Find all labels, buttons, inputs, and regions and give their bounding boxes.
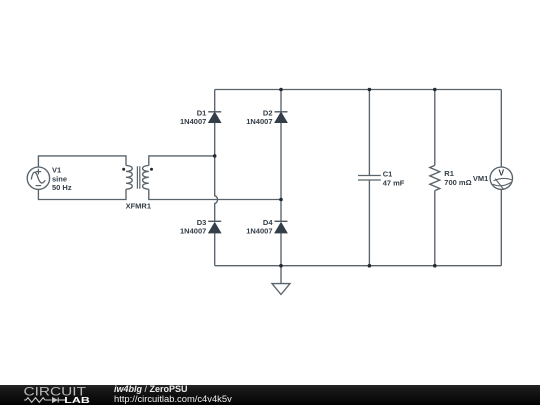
svg-text:47 mF: 47 mF	[383, 178, 405, 187]
svg-text:1N4007: 1N4007	[180, 227, 206, 236]
wire D3 bottom	[214, 233, 216, 266]
svg-text:700 mΩ: 700 mΩ	[444, 178, 471, 187]
wire secondary top	[149, 156, 215, 166]
CircuitLab logo	[0, 385, 110, 405]
svg-text:D2: D2	[263, 108, 273, 117]
wire R1 branch	[434, 90, 436, 266]
wire D4 bottom	[280, 233, 282, 266]
svg-text:1N4007: 1N4007	[246, 117, 272, 126]
diode D2	[275, 112, 288, 123]
svg-text:1N4007: 1N4007	[180, 117, 206, 126]
wire secondary bottom to D2/D4 node	[149, 189, 281, 199]
diode D4	[275, 221, 288, 233]
wire V1 bottom	[38, 189, 126, 199]
svg-text:V: V	[498, 168, 504, 178]
svg-text:1N4007: 1N4007	[246, 227, 272, 236]
wire D1 branch upper	[214, 90, 216, 112]
voltage source V1	[27, 167, 49, 189]
svg-text:C1: C1	[383, 170, 393, 179]
svg-text:R1: R1	[444, 169, 454, 178]
diode D1	[208, 112, 221, 123]
footer bar	[0, 385, 540, 405]
svg-text:XFMR1: XFMR1	[126, 202, 151, 211]
diode D3	[208, 221, 221, 233]
wire D2-D4 middle	[280, 123, 282, 222]
svg-text:LAB: LAB	[64, 396, 90, 405]
svg-text:VM1: VM1	[473, 174, 488, 183]
resistor R1	[430, 165, 440, 190]
svg-text:V1: V1	[52, 166, 61, 175]
transformer phase dots	[122, 168, 125, 171]
voltmeter VM1	[490, 167, 512, 190]
wire bottom rail	[215, 265, 502, 267]
wire V1 top	[38, 156, 126, 167]
wire C1 branch	[368, 90, 370, 266]
svg-text:D1: D1	[197, 108, 207, 117]
capacitor C1	[358, 176, 381, 181]
svg-text:sine: sine	[52, 174, 67, 183]
svg-text:D3: D3	[197, 218, 207, 227]
transformer core	[137, 166, 139, 189]
transformer XFMR1 secondary coil	[143, 166, 149, 190]
wire D1-D3 middle with hop	[215, 123, 218, 222]
wire ground stem	[280, 266, 282, 284]
svg-text:50 Hz: 50 Hz	[52, 183, 72, 192]
transformer XFMR1 primary coil	[126, 166, 132, 190]
svg-text:D4: D4	[263, 218, 273, 227]
wire D2 branch upper	[280, 90, 282, 112]
wire VM1 branch	[500, 90, 502, 266]
ground	[272, 284, 290, 295]
wire top rail	[215, 89, 502, 91]
